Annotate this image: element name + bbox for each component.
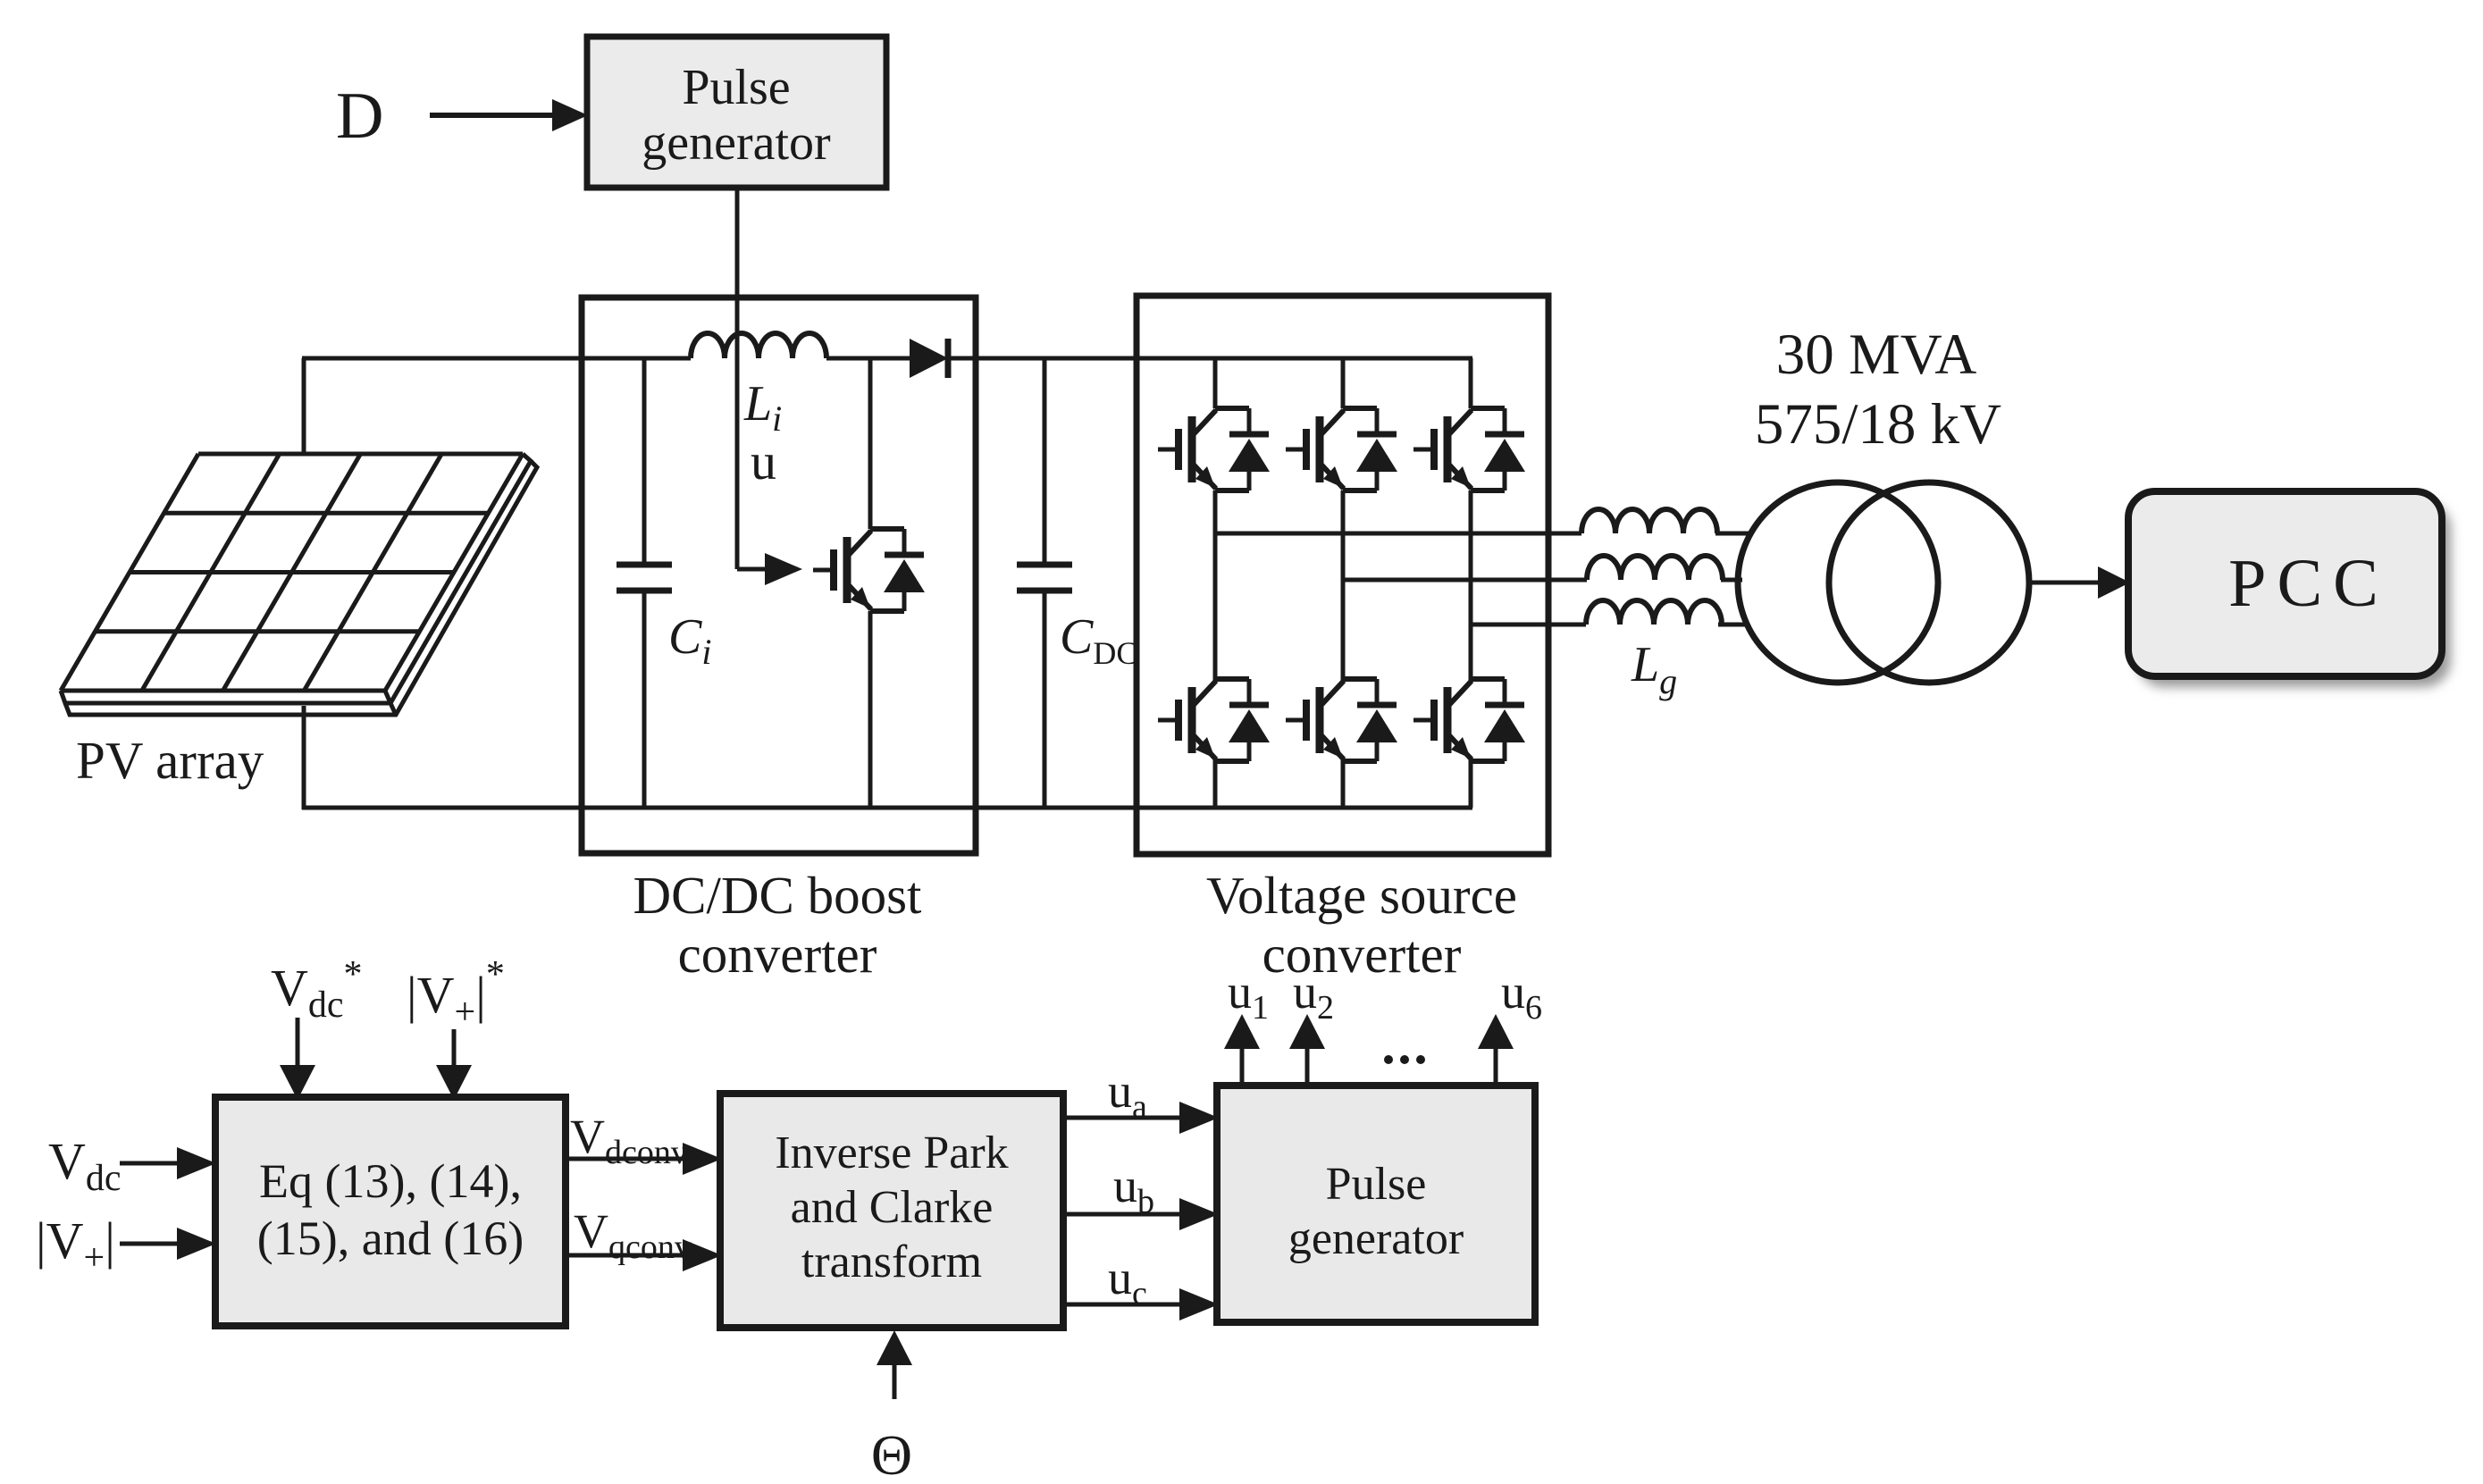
- svg-text:PCC: PCC: [2228, 546, 2389, 621]
- svg-text:PV array: PV array: [76, 731, 264, 790]
- svg-text:Pulse: Pulse: [1326, 1159, 1427, 1210]
- svg-text:generator: generator: [642, 115, 831, 171]
- svg-text:Θ: Θ: [871, 1423, 912, 1484]
- svg-text:DC/DC boost: DC/DC boost: [633, 866, 923, 925]
- svg-text:Eq (13), (14),: Eq (13), (14),: [259, 1154, 522, 1208]
- svg-text:Pulse: Pulse: [682, 60, 790, 115]
- svg-text:(15), and (16): (15), and (16): [257, 1212, 524, 1265]
- svg-text:and Clarke: and Clarke: [791, 1182, 994, 1233]
- svg-text:575/18 kV: 575/18 kV: [1755, 392, 2001, 457]
- svg-text:Voltage source: Voltage source: [1206, 866, 1517, 925]
- svg-text:u: u: [751, 432, 776, 490]
- svg-text:converter: converter: [678, 925, 877, 984]
- svg-text:transform: transform: [801, 1237, 982, 1287]
- svg-text:generator: generator: [1288, 1213, 1464, 1264]
- svg-text:Inverse Park: Inverse Park: [775, 1128, 1008, 1178]
- svg-text:30 MVA: 30 MVA: [1776, 323, 1977, 387]
- svg-text:D: D: [336, 80, 383, 153]
